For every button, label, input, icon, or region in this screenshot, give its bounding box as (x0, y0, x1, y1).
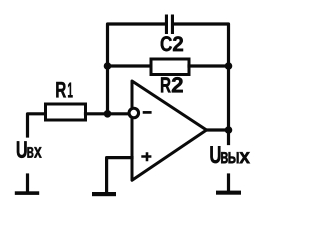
ground: input terminal bar (15, 191, 39, 195)
capacitor C2 (165, 15, 174, 35)
wire: top rail from C2 right plate to right rail corner, down right rail to output stub end (174, 24, 229, 144)
wire: op-amp output to output rail (207, 128, 229, 131)
node: junction of rail and R2 left (104, 62, 112, 70)
label Uvx (17, 141, 27, 157)
node: junction of output rail and R2 right (225, 62, 233, 70)
wire: input terminal up and right to R1 left terminal (28, 114, 46, 136)
inverting input bubble (129, 108, 139, 118)
label R1 (56, 82, 72, 97)
pin label: inverting input minus sign (143, 111, 152, 114)
node: output junction (225, 126, 233, 134)
wire: non-inverting input left and down to ground (107, 158, 132, 193)
label Uvx subscript vx (27, 147, 41, 158)
label R2 (161, 77, 183, 92)
wire: left feedback rail from inverting node up to top rail and right to C2 left plate (108, 24, 165, 114)
pin label: non-inverting input plus sign (141, 152, 151, 161)
op-amp U1 (132, 81, 207, 180)
node: inverting input junction (104, 110, 112, 118)
label Uvyx (210, 146, 220, 163)
ground: output terminal stub (227, 175, 230, 190)
ground: non-inverting input bar (92, 192, 116, 196)
wire: R2 right terminal to output rail (189, 64, 229, 67)
resistor R1 (46, 104, 86, 120)
resistor R2 (151, 59, 189, 75)
label Uvyx subscript vyx (221, 152, 250, 163)
ground: input terminal stub (26, 175, 29, 191)
label C2 (161, 36, 183, 51)
wire: inverting node to R2 left terminal (108, 64, 152, 67)
ground: output terminal bar (216, 191, 241, 195)
wire: R1 right terminal to inverting input bubble (86, 112, 131, 115)
